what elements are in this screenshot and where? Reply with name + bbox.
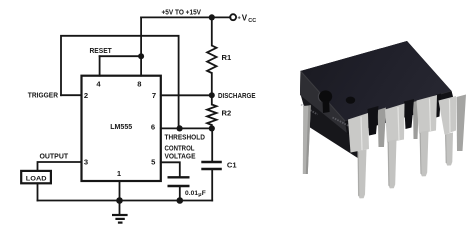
svg-text:5: 5 bbox=[151, 158, 156, 167]
svg-text:7: 7 bbox=[152, 91, 156, 100]
svg-text:R1: R1 bbox=[222, 53, 232, 62]
svg-text:OUTPUT: OUTPUT bbox=[40, 153, 69, 160]
svg-text:RESET: RESET bbox=[90, 46, 113, 55]
svg-text:TRIGGER: TRIGGER bbox=[28, 92, 58, 99]
svg-text:VOLTAGE: VOLTAGE bbox=[165, 152, 196, 161]
svg-text:CC: CC bbox=[248, 18, 256, 24]
svg-text:THRESHOLD: THRESHOLD bbox=[165, 133, 205, 142]
svg-text:V: V bbox=[242, 14, 248, 23]
svg-text:4: 4 bbox=[96, 79, 101, 88]
svg-text:C1: C1 bbox=[227, 160, 237, 169]
svg-text:2: 2 bbox=[84, 91, 88, 100]
svg-text:1: 1 bbox=[117, 169, 122, 178]
svg-text:R2: R2 bbox=[222, 109, 232, 118]
svg-text:0.01: 0.01 bbox=[185, 190, 198, 197]
svg-text:DISCHARGE: DISCHARGE bbox=[218, 91, 256, 100]
svg-text:8: 8 bbox=[137, 79, 141, 88]
svg-text:LM555: LM555 bbox=[110, 122, 132, 131]
svg-text:+5V TO +15V: +5V TO +15V bbox=[162, 9, 202, 16]
svg-text:3: 3 bbox=[84, 158, 88, 167]
svg-text:LOAD: LOAD bbox=[26, 175, 47, 182]
svg-text:6: 6 bbox=[151, 123, 155, 132]
svg-text:F: F bbox=[202, 190, 206, 197]
